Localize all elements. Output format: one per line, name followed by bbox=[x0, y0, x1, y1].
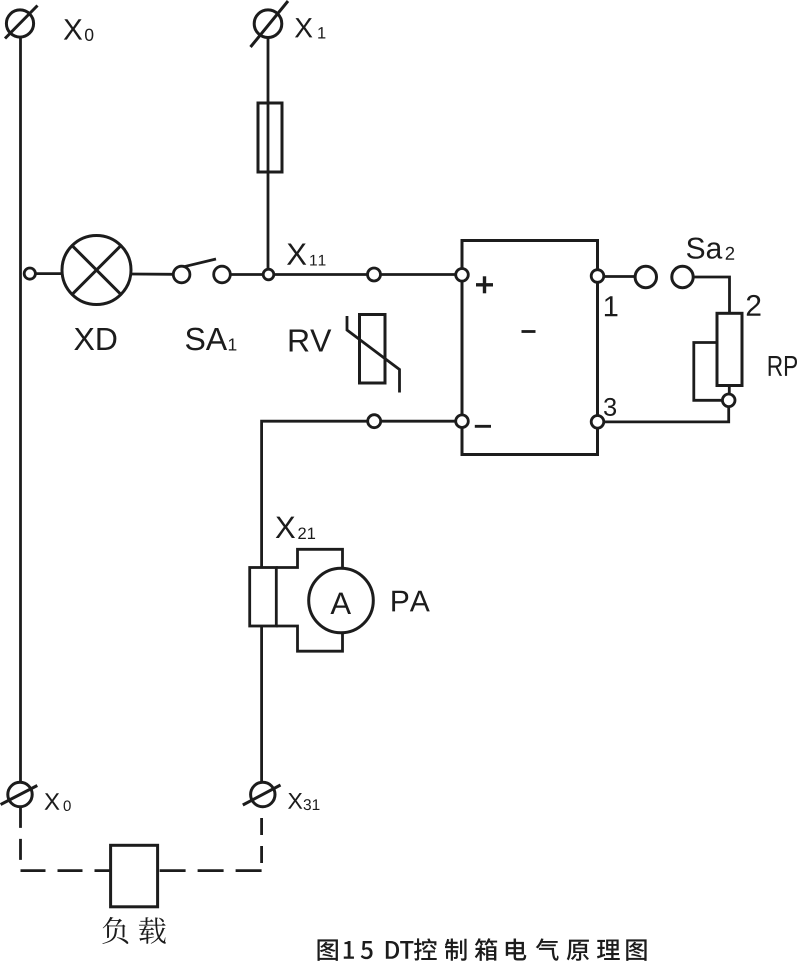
label XD bbox=[74, 328, 116, 350]
ammeter plug bottom bbox=[276, 626, 342, 651]
terminal X1 bbox=[251, 1, 289, 47]
label 3 bbox=[604, 398, 616, 416]
terminal X0 (top) bbox=[5, 6, 38, 39]
label X21 bbox=[276, 517, 315, 539]
wire - input to corner bbox=[381, 420, 456, 423]
terminal X0 (bottom) bbox=[1, 782, 38, 806]
wire to corner and down bbox=[262, 421, 368, 567]
label RV bbox=[290, 329, 332, 351]
fuse FU bbox=[258, 103, 282, 172]
node on left bus bbox=[24, 268, 35, 279]
node RP bottom bbox=[722, 394, 735, 407]
node pin 3 bbox=[591, 416, 604, 429]
lamp XD bbox=[62, 236, 131, 305]
ammeter PA bbox=[309, 568, 374, 633]
label 负载 (load) bbox=[102, 917, 165, 944]
label 1 bbox=[605, 296, 618, 316]
wire pin1 to Sa2 bbox=[604, 275, 635, 278]
terminal X31 bbox=[243, 782, 281, 806]
wire SA1 to node X11 bbox=[230, 273, 263, 276]
dashed wire load box to X31 bbox=[158, 869, 262, 872]
label SA1 bbox=[186, 328, 236, 351]
wire bbox=[381, 273, 456, 276]
minus sign bbox=[475, 425, 491, 428]
center minus sign bbox=[522, 330, 536, 333]
label X0 (top) bbox=[64, 19, 94, 41]
node X11 bbox=[263, 269, 274, 280]
dashed wire X0 down bbox=[19, 807, 22, 871]
node circle on - wire bbox=[368, 415, 381, 428]
varistor RV bbox=[347, 315, 400, 393]
wire RP to pin 3 bbox=[604, 407, 729, 422]
label Sa2 bbox=[687, 238, 734, 260]
caption 图15 DT控制箱电气原理图 bbox=[318, 938, 647, 961]
terminal block X21 bbox=[250, 568, 277, 627]
label X1 bbox=[295, 18, 325, 38]
node - input bbox=[456, 415, 469, 428]
node + input bbox=[456, 269, 469, 282]
dashed wire X31 down bbox=[260, 807, 263, 871]
potentiometer RP bbox=[694, 313, 742, 400]
ammeter plug top bbox=[276, 549, 342, 568]
label X11 bbox=[287, 243, 325, 265]
wire Sa2 to RP pin 2 bbox=[693, 277, 729, 313]
wire node to lamp bbox=[35, 272, 63, 275]
wire left bus (X0 top to X0 bottom) bbox=[19, 37, 22, 783]
node circle on + wire bbox=[368, 268, 381, 281]
switch Sa2 contacts bbox=[635, 266, 693, 287]
node pin 1 bbox=[591, 270, 604, 283]
load box bbox=[111, 845, 158, 907]
dashed wire to load box bbox=[21, 869, 111, 872]
label PA bbox=[392, 591, 429, 612]
plus sign bbox=[476, 276, 493, 293]
wire lamp to SA1 bbox=[131, 273, 173, 276]
wire X21 down to X31 bbox=[260, 626, 263, 782]
wire X1 down to node X11 bbox=[267, 38, 270, 270]
wire X11 to + input bbox=[274, 273, 368, 276]
switch SA1 bbox=[173, 259, 230, 283]
label X0 (bottom) bbox=[45, 793, 71, 811]
label 2 bbox=[747, 295, 761, 316]
label RP bbox=[769, 356, 797, 376]
label X31 bbox=[288, 793, 319, 810]
DT control box U1 bbox=[462, 241, 598, 455]
